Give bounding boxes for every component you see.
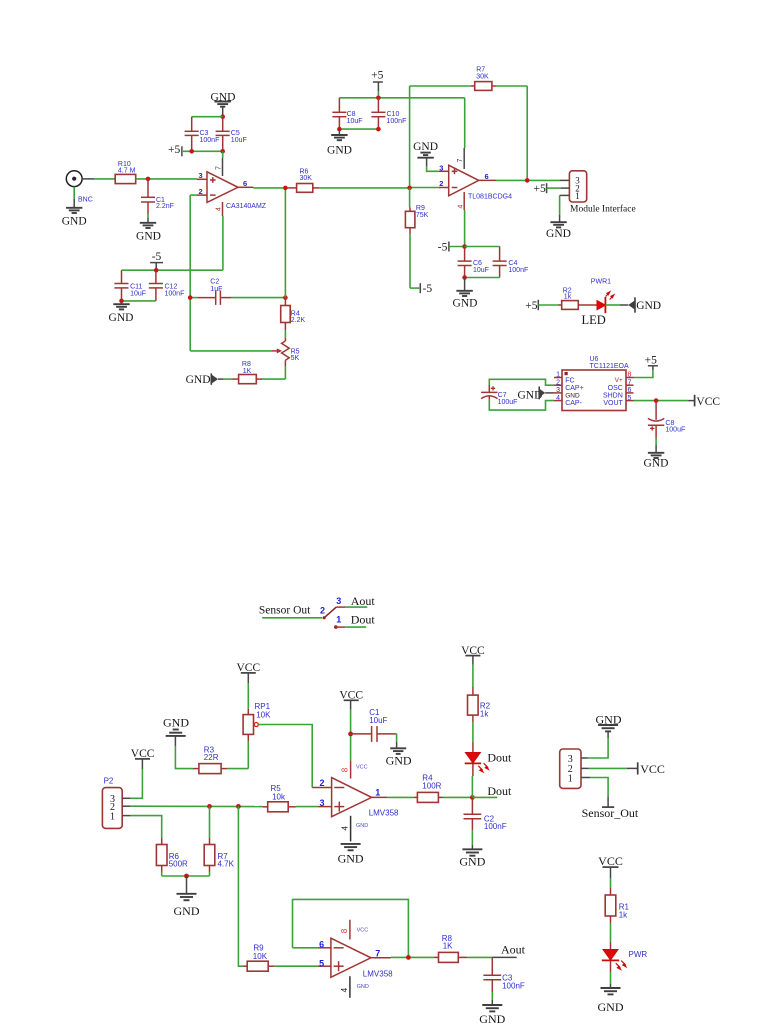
node junction C8 bottom [337,127,342,132]
capacitor C11 [114,270,146,301]
svg-text:-5: -5 [423,283,433,295]
svg-text:6: 6 [243,179,247,188]
wire C2 to ground [471,830,473,849]
svg-text:3: 3 [336,596,341,606]
svg-text:GND: GND [644,457,669,469]
power flag -5 at C11 C12 [150,251,163,270]
op-amp U3 LMV358 [320,764,400,830]
wire C11 C12 bottom rail [122,300,156,302]
node junction output feedback tap [283,186,288,191]
ground at C1 [386,748,412,767]
wire op-amp U3 pin 2 stub [312,787,331,789]
wire C8 C10 bottom rail [339,128,378,130]
node junction C2 left [188,295,193,300]
svg-text:2: 2 [556,379,560,386]
wire ground to R3 [175,746,193,769]
net flag Sensor_Out at P1 pin 1 [582,778,639,820]
svg-text:100nF: 100nF [502,982,525,991]
svg-text:GND: GND [565,393,580,400]
ground flag at R8 [186,373,218,385]
power flag VCC above C1 [339,690,363,734]
capacitor C4 [493,247,529,278]
svg-text:8: 8 [341,767,350,772]
svg-text:1: 1 [556,372,560,379]
svg-text:100uF: 100uF [665,426,685,433]
potentiometer RP1 [243,683,271,741]
wire C5 junction down to pin 7 [222,151,224,158]
wire U2 pin 4 to -5 rail [464,210,466,247]
capacitor C8 [332,98,362,129]
svg-text:7: 7 [375,948,380,958]
svg-text:7: 7 [628,379,632,386]
wire LED to Dout node [471,763,474,797]
capacitor C9 [648,401,685,438]
wire BNC to ground [73,187,75,208]
pin 4 stub U4 [349,976,351,998]
LED PWR1 [582,278,614,327]
resistor R7 [204,806,234,871]
svg-text:5: 5 [628,395,632,402]
power flag +5 at module interface pin 2 [534,183,570,195]
wire op-amp U1 pin 2 [190,195,207,351]
connector Module Interface [569,171,635,215]
svg-text:22R: 22R [204,753,219,762]
svg-text:2: 2 [320,778,325,788]
wire feedback vertical [284,188,286,298]
svg-text:3: 3 [320,798,325,808]
wire R7 left vertical to junction [409,86,411,188]
power flag VCC above R1 [598,854,623,888]
svg-text:10uF: 10uF [231,137,247,144]
node junction C1 vcc [348,732,353,737]
svg-text:30K: 30K [476,73,489,80]
wire C1 to ground [396,734,398,748]
svg-text:GND: GND [546,228,571,240]
svg-text:GND: GND [636,300,661,312]
wire R6 R7 bottom rail [162,872,210,877]
power flag VCC above RP1 [236,662,260,683]
svg-text:2.2nF: 2.2nF [156,203,174,210]
svg-text:GND: GND [327,144,352,156]
node junction C10 bottom [376,127,381,132]
op-amp U1 CA3140AMZ [199,166,267,211]
svg-text:GND: GND [479,1012,505,1024]
capacitor C2 [464,797,507,831]
svg-text:TC1121EOA: TC1121EOA [590,363,629,370]
wire ground to U2 pin 3 [427,166,449,171]
capacitor C10 [371,98,406,129]
svg-text:C6: C6 [473,260,482,267]
node junction R9 tap [236,804,241,809]
svg-text:4: 4 [341,826,350,831]
capacitor C2 [190,278,285,305]
node junction -5 flag C12 [154,268,159,273]
pin 4 stub op-amp U1 [222,202,224,216]
wire op-amp U1 pin 4 to -5 rail [222,216,224,270]
svg-text:PWR1: PWR1 [591,278,611,285]
resistor R6 [288,169,320,193]
svg-text:5K: 5K [291,355,300,362]
power flag -5 at R9 [420,283,432,295]
op-amp U4 LMV358 [319,927,393,992]
node junction U4 output [406,955,411,960]
svg-text:VOUT: VOUT [603,400,623,407]
wire C3 to ground [491,992,493,1005]
svg-text:C2: C2 [210,278,219,285]
node junction C10 top [376,96,381,101]
svg-text:1K: 1K [443,942,453,951]
capacitor C5 [216,117,247,152]
svg-text:1: 1 [110,811,115,822]
svg-text:LMV358: LMV358 [369,808,399,817]
svg-text:1: 1 [375,788,380,798]
potentiometer R5 [272,341,300,362]
capacitor C6 [458,247,489,278]
power flag -5 at U2 pin 4 [438,241,465,253]
svg-text:8: 8 [340,928,349,933]
power flag +5 at U6 pin 8 [634,354,658,377]
wire R8 to ground flag [218,378,233,380]
svg-text:+5: +5 [371,70,383,82]
svg-text:V+: V+ [615,377,623,384]
switch sensor select [320,605,336,619]
resistor R9 [244,944,275,972]
resistor R10 [115,161,136,184]
svg-text:10uF: 10uF [473,267,489,274]
svg-text:3: 3 [439,163,443,172]
svg-text:VCC: VCC [356,764,368,770]
svg-text:GND: GND [186,374,211,386]
svg-text:SHDN: SHDN [603,392,623,399]
svg-text:10k: 10k [272,792,286,801]
svg-text:GND: GND [386,754,412,768]
svg-text:Aout: Aout [501,942,526,956]
svg-text:100uF: 100uF [498,399,518,406]
wire U3 output to R4 [372,796,414,798]
svg-text:1: 1 [575,191,580,201]
svg-text:4.7K: 4.7K [218,860,235,869]
svg-text:-5: -5 [152,251,162,263]
connector P1 sensor [560,749,590,788]
resistor R3 [193,745,227,773]
svg-text:2: 2 [439,179,443,188]
svg-text:TL081BCDG4: TL081BCDG4 [468,194,512,201]
ground at BNC [62,208,87,228]
ground below LED PWR [598,988,624,1014]
svg-text:3: 3 [556,387,560,394]
svg-text:C12: C12 [165,283,178,290]
ground at C3 [479,1005,505,1024]
wire C6 C4 bottom rail [465,277,500,279]
wire R9 to -5 flag [410,234,419,288]
pin 8 stub U3 [350,734,352,779]
wire R7 right vertical to output [526,86,528,180]
svg-text:GND: GND [598,1000,624,1014]
node junction C6 bottom [462,275,467,280]
ground at C2 [459,849,485,868]
svg-text:GND: GND [338,851,364,865]
svg-text:+5: +5 [534,183,546,195]
svg-text:VCC: VCC [357,927,369,933]
wire R6 to op-amp U2 pin 2 [319,187,448,189]
node junction C3 C5 top [220,114,225,119]
capacitor C1 [351,708,397,742]
svg-text:CAP+: CAP+ [565,385,583,392]
resistor R1 [605,888,629,923]
node junction R7 tap [207,804,212,809]
svg-text:-5: -5 [438,241,448,253]
svg-text:CAP-: CAP- [565,400,582,407]
wire R4 to R5 [284,330,286,341]
wire module interface pin 1 to ground [560,195,570,222]
svg-text:100nF: 100nF [165,291,185,298]
ground above R3 [163,716,189,746]
svg-text:GND: GND [109,312,134,324]
resistor R7 [410,67,528,91]
node junction C5 bottom pin7 [220,149,225,154]
ground at module interface [546,222,571,240]
op-amp U2 TL081BCDG4 [439,159,512,209]
wire P2 pin 1 to R6 [131,816,162,838]
wire R1 to LED PWR [610,923,612,950]
svg-text:GND: GND [136,231,161,243]
svg-text:VCC: VCC [696,396,720,408]
svg-text:30K: 30K [300,175,313,182]
node junction C3 bottom [189,149,194,154]
node junction C6 top [462,244,467,249]
svg-text:LED: LED [582,313,606,327]
svg-text:8: 8 [628,372,632,379]
capacitor C1 [141,179,174,214]
svg-text:4: 4 [216,207,223,211]
net label wire Aout [468,942,526,957]
power flag VCC above R2 [461,645,485,687]
chip U6 TC1121EOA [554,356,634,410]
pin 4 stub op-amp U2 [463,192,465,210]
svg-text:FC: FC [565,377,574,384]
svg-text:C4: C4 [508,260,517,267]
capacitor C12 [149,270,185,301]
wire R4 to Dout node [443,796,472,798]
svg-text:10uF: 10uF [130,291,146,298]
wire C3 C5 top rail [192,116,223,118]
wire LED PWR to ground [610,960,612,987]
svg-text:4: 4 [457,205,464,209]
wire C3 C5 bottom rail to +5 [183,150,223,152]
svg-text:1K: 1K [243,368,252,375]
wire RP1 wiper to op-amp pin 2 [258,725,312,788]
svg-text:VCC: VCC [640,762,665,776]
wire P1 pin 3 to ground [588,738,609,758]
power flag +5 at R2 [525,300,558,312]
ground at C8 [327,129,352,156]
svg-text:1: 1 [568,773,573,784]
wire C9 to ground [655,438,657,453]
svg-text:100nF: 100nF [508,267,528,274]
wire C1 to ground [147,214,149,223]
svg-text:10uF: 10uF [369,716,387,725]
node junction C1 tap [146,177,151,182]
resistor R4 [281,298,306,330]
svg-text:2.2K: 2.2K [291,317,306,324]
svg-text:GND: GND [413,141,438,153]
svg-text:+5: +5 [168,144,180,156]
wire BNC to R10 [82,178,115,180]
resistor R2 [468,687,491,722]
svg-text:4.7 M: 4.7 M [118,167,136,174]
svg-text:2: 2 [320,605,325,615]
svg-text:4: 4 [556,395,560,402]
node junction C8 vout [654,398,659,403]
svg-text:1k: 1k [564,293,572,300]
net label wire Dout [472,784,512,798]
svg-text:Dout: Dout [487,750,512,764]
ground at C9 [644,453,669,470]
svg-text:4: 4 [340,987,349,992]
svg-text:1uF: 1uF [210,286,222,293]
svg-text:6: 6 [319,939,324,949]
wire junction to ground [186,876,188,894]
node junction U2 inverting input [407,186,412,191]
ground above connector P1 [596,713,622,738]
svg-text:GND: GND [356,823,368,829]
wire U6 VOUT to VCC [634,400,695,402]
wire feedback U4 [293,899,409,956]
wire R9 feed from P2 pin 2 [238,806,243,966]
wire op-amp U1 output [238,186,288,189]
svg-text:C10: C10 [387,111,400,118]
svg-text:GND: GND [357,984,369,990]
wire R3 to RP1 bottom [227,741,248,769]
power flag VCC at P1 pin 2 [589,762,665,776]
node junction Dout [470,795,475,800]
ground above C3 C5 [211,92,236,117]
power flag +5 at C3 C5 [168,144,182,156]
svg-text:100nF: 100nF [200,137,220,144]
svg-text:GND: GND [62,216,87,228]
power flag +5 above C8 C10 [371,70,383,98]
power flag VCC at U6 VOUT [695,395,721,408]
node junction R6 R7 ground [184,874,189,879]
svg-text:+5: +5 [525,300,537,312]
LED PWR [602,950,648,970]
svg-text:GND: GND [453,297,478,309]
wire -5 rail [122,269,223,271]
ground at U3 pin 4 [338,844,364,866]
svg-text:1: 1 [336,614,341,624]
ground flag at U6 pin 3 [518,387,555,402]
resistor R8 [434,934,468,963]
node junction C11 bottom [119,299,124,304]
svg-text:Dout: Dout [351,612,376,626]
node junction U2 output [525,178,530,183]
ground at C11 [109,301,134,324]
svg-text:100nF: 100nF [484,822,507,831]
pin 4 stub U3 to ground [350,816,352,842]
svg-text:Sensor_Out: Sensor_Out [582,806,639,820]
svg-text:7: 7 [215,166,222,170]
svg-text:P2: P2 [104,777,114,786]
wire LED to ground flag [605,304,628,306]
power flag VCC above P2 [131,748,155,769]
wire R5 bottom to R8 [262,360,285,379]
svg-text:6: 6 [628,387,632,394]
wire VCC to P2 pin 3 [131,769,143,798]
svg-text:U6: U6 [590,356,599,363]
node junction feedback R4 top [283,295,288,300]
svg-text:1k: 1k [619,911,628,920]
wire R10 to op-amp pin 3 [136,178,207,180]
svg-text:10K: 10K [256,711,271,720]
wire P2 pin 2 bus [131,805,258,807]
connector P2 [102,777,130,829]
ground at C6 [453,278,478,310]
svg-text:3: 3 [199,171,203,180]
svg-text:100nF: 100nF [387,118,407,125]
capacitor C3 [483,957,524,992]
wire U2 output to module interface [479,179,570,181]
svg-text:10uF: 10uF [347,118,363,125]
pin 7 stub op-amp U2 [463,148,465,169]
svg-text:500R: 500R [169,860,188,869]
switch pin 1 Dout [334,612,375,628]
svg-text:Dout: Dout [487,784,512,798]
wire C6 C4 top rail [465,246,500,248]
svg-text:7: 7 [457,159,464,163]
resistor R9 [405,188,428,234]
switch pin 3 Aout [336,594,375,608]
wire R5 to op-amp pin 3 [296,806,332,808]
resistor R8 [233,361,263,384]
svg-text:Aout: Aout [351,594,376,608]
svg-text:LMV358: LMV358 [363,970,393,979]
ground above U2 pin 3 [413,141,438,166]
wire R9 to U4 pin 5 [274,965,332,967]
wire U4 output [371,956,434,958]
svg-text:+5: +5 [645,354,657,366]
resistor R2 [558,288,597,310]
ground at C1 [136,223,161,243]
svg-text:Module Interface: Module Interface [570,203,636,214]
svg-text:75K: 75K [416,212,429,219]
svg-text:1k: 1k [480,709,489,718]
svg-text:10K: 10K [253,952,268,961]
wire pot wiper [190,350,272,352]
svg-text:VCC: VCC [598,854,623,868]
pin 8 stub U4 [349,920,351,940]
svg-text:C11: C11 [130,283,142,290]
wire sensor out [262,617,322,619]
svg-text:GND: GND [174,904,200,918]
svg-text:BNC: BNC [78,197,93,204]
connector BNC [66,171,92,204]
capacitor C7 [481,379,554,410]
resistor R4 [414,773,443,802]
svg-text:Sensor Out: Sensor Out [259,605,311,617]
svg-text:CA3140AMZ: CA3140AMZ [226,203,267,210]
svg-text:100R: 100R [422,781,441,790]
ground flag at LED [628,297,661,312]
ground below R6 R7 [174,894,200,918]
pin 7 stub op-amp U1 [222,158,224,176]
svg-text:OSC: OSC [608,385,623,392]
svg-text:5: 5 [319,958,324,968]
resistor R6 [156,838,188,872]
LED Dout indicator [465,750,512,772]
resistor R5 [258,784,296,812]
svg-text:C8: C8 [347,111,356,118]
wire R2 to LED [472,722,474,753]
